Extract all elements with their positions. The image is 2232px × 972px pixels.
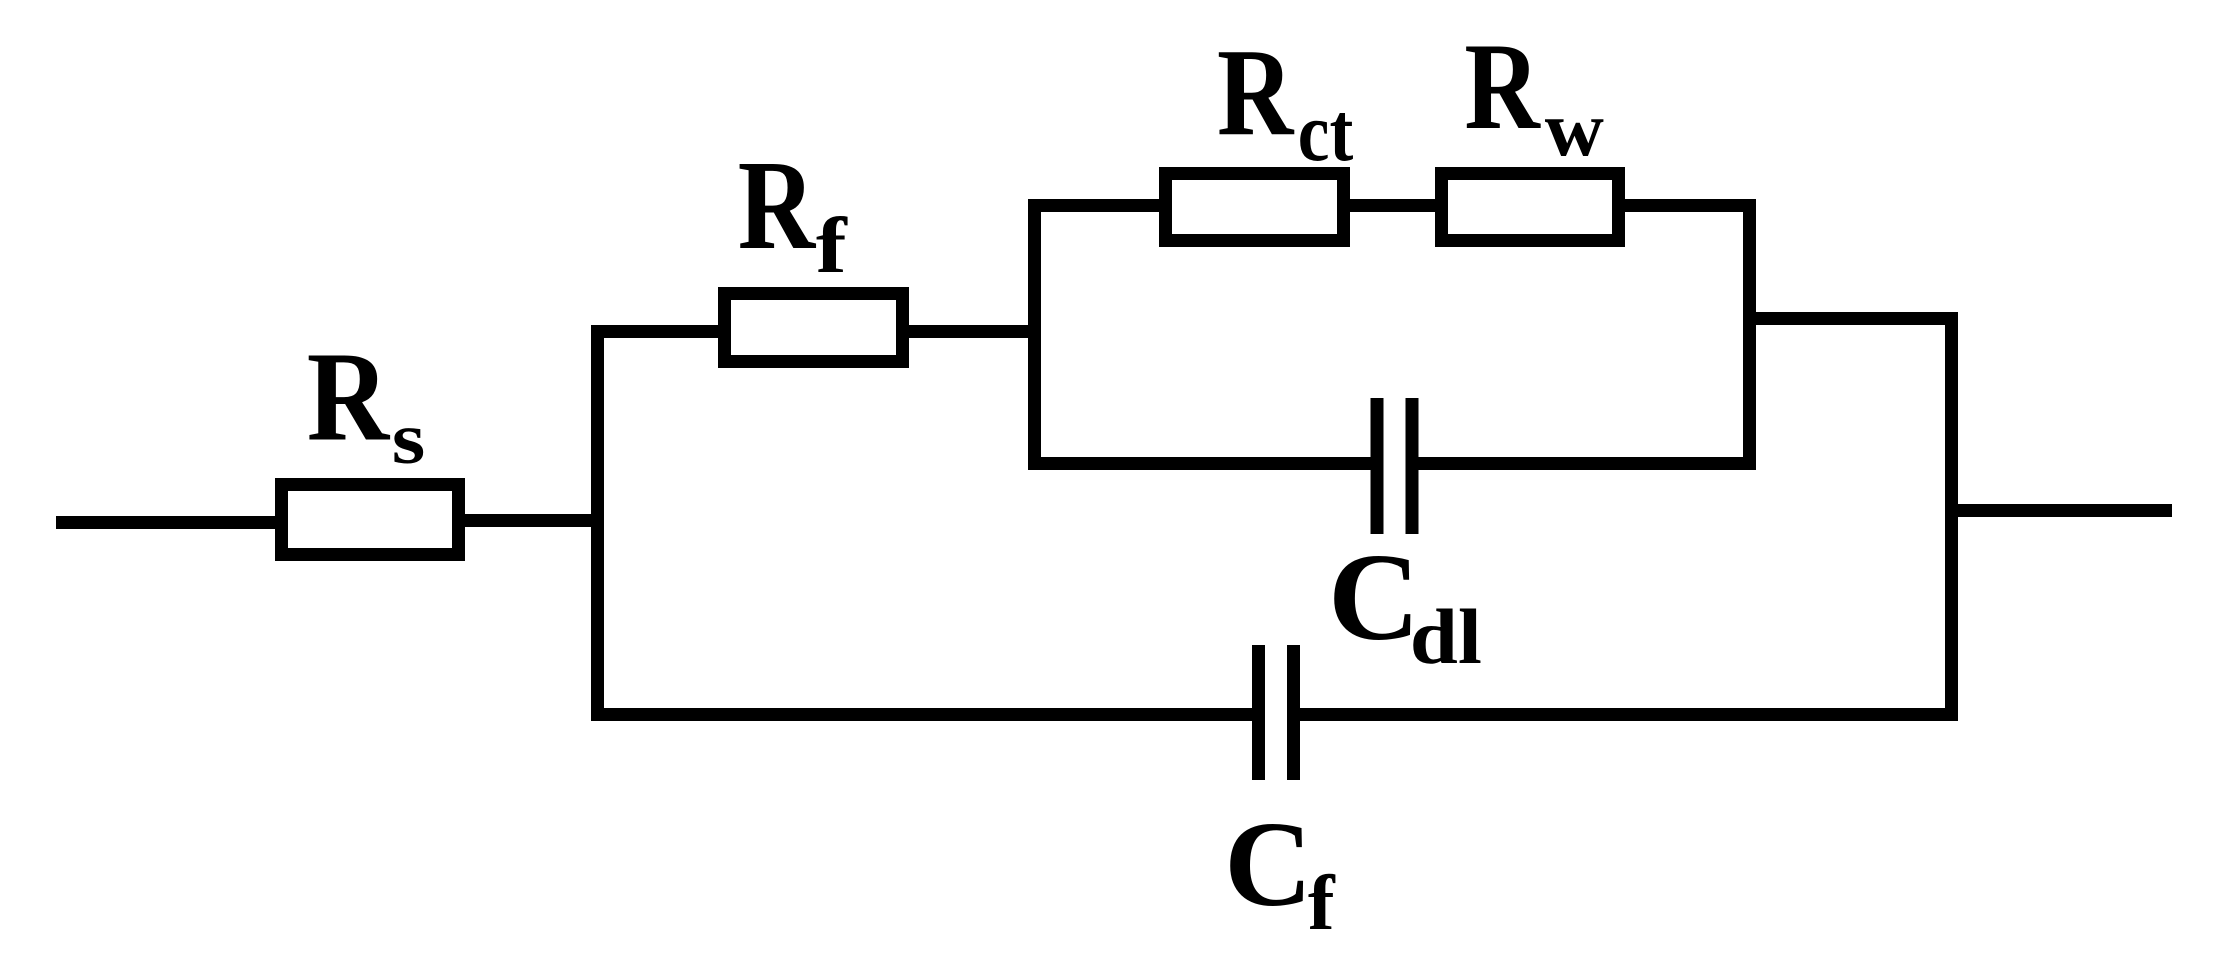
wire: Rs to left junction node: [465, 514, 604, 527]
capacitor Cdl: [1371, 398, 1419, 534]
wire: bottom branch, left segment: [591, 708, 1252, 721]
resistor Rf: [725, 294, 903, 362]
label Rf: [738, 134, 848, 289]
wire: inner-right vertical: [1743, 199, 1756, 470]
label Rw: [1464, 18, 1604, 173]
svg-text:w: w: [1545, 87, 1604, 173]
wire: inner-left vertical: [1028, 199, 1041, 470]
resistor Rct: [1166, 174, 1344, 241]
capacitor Cf: [1252, 645, 1300, 780]
wire: bottom branch, right segment: [1300, 708, 1958, 721]
svg-text:ct: ct: [1298, 86, 1353, 179]
resistor Rw: [1442, 174, 1619, 241]
resistor Rs: [282, 485, 459, 555]
label Rct: [1217, 24, 1353, 178]
svg-text:dl: dl: [1410, 594, 1482, 680]
wire: top branch, junction to Rf: [591, 325, 721, 338]
svg-text:R: R: [1464, 18, 1541, 155]
wire: Rct to Rw: [1348, 199, 1438, 212]
wire: outer-left vertical (junction riser): [591, 325, 604, 721]
svg-text:R: R: [738, 134, 817, 276]
label Cf: [1224, 797, 1336, 947]
svg-text:R: R: [307, 327, 391, 468]
wire: inner block to outer-right vertical: [1743, 312, 1958, 325]
wire: left input lead: [56, 516, 276, 529]
svg-text:f: f: [1308, 860, 1336, 947]
wire: Rw to inner-right vertical: [1625, 199, 1746, 212]
wire: right output lead: [1956, 504, 2172, 517]
svg-text:C: C: [1224, 797, 1312, 932]
wire: outer-right vertical: [1945, 312, 1958, 721]
wire: Rf to inner parallel block: [909, 325, 1041, 338]
svg-text:s: s: [392, 399, 426, 479]
wire: inner bottom branch, right segment: [1418, 457, 1756, 470]
label Cdl: [1328, 528, 1482, 680]
svg-text:f: f: [816, 201, 848, 289]
label Rs: [307, 327, 426, 480]
wire: inner top branch, left segment: [1028, 199, 1162, 212]
svg-text:R: R: [1217, 24, 1295, 162]
svg-text:C: C: [1328, 528, 1420, 667]
wire: inner bottom branch, left segment: [1028, 457, 1371, 470]
